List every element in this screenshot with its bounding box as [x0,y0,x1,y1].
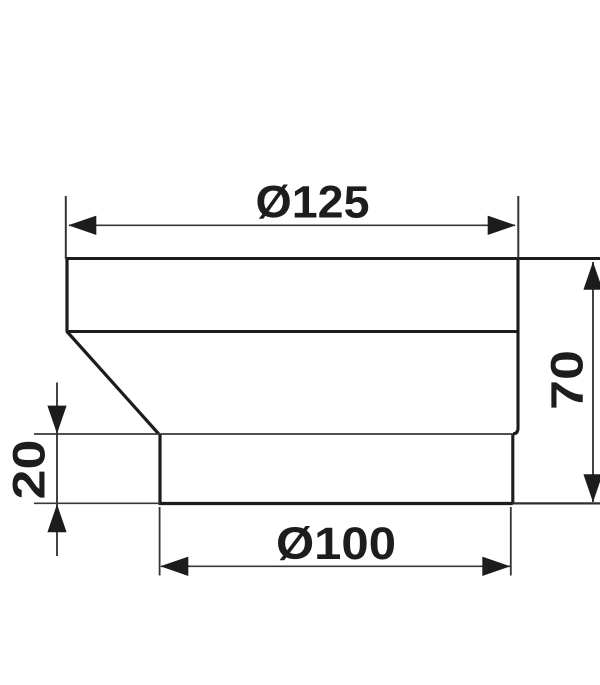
wire lower-right edge of body [511,434,514,504]
wire dimension line 20 [56,383,58,557]
wire dimension line 100 [161,565,510,567]
arrow upper of dimension 20 pointing down [47,406,66,434]
arrow left of dimension 125 [68,216,96,235]
wire upper-left edge of body [65,257,68,332]
wire taper seam line through body with left extension [34,433,513,435]
arrow top of dimension 70 [583,262,600,290]
svg-text:Ø100: Ø100 [276,518,396,569]
svg-text:Ø125: Ø125 [256,177,370,228]
wire dimension line 125 [69,224,515,226]
wire bottom-left extension line [34,502,160,504]
wire bottom edge right extension line [513,502,600,504]
arrow bottom of dimension 70 [583,474,600,502]
wire lower-left edge of body [158,434,161,505]
wire upper-right edge of body with jog [513,258,518,434]
node left extension line of dimension 125 [65,196,67,259]
wire sloped cone edge [67,331,159,434]
node right extension line of dimension 125 [517,196,519,258]
arrow right of dimension 125 [488,216,516,235]
wire cone upper seam line [67,330,518,333]
wire dimension line 70 [592,262,594,502]
wire top edge of reducer body (extends right as extension line) [66,257,600,260]
arrow lower of dimension 20 pointing up [47,504,66,532]
wire bottom edge of body [159,502,513,505]
arrow right of dimension 100 [482,557,510,576]
node left extension line of dimension 100 [159,507,161,576]
node right extension line of dimension 100 [510,507,512,576]
svg-text:20: 20 [4,440,55,500]
arrow left of dimension 100 [160,557,188,576]
svg-text:70: 70 [542,350,593,410]
